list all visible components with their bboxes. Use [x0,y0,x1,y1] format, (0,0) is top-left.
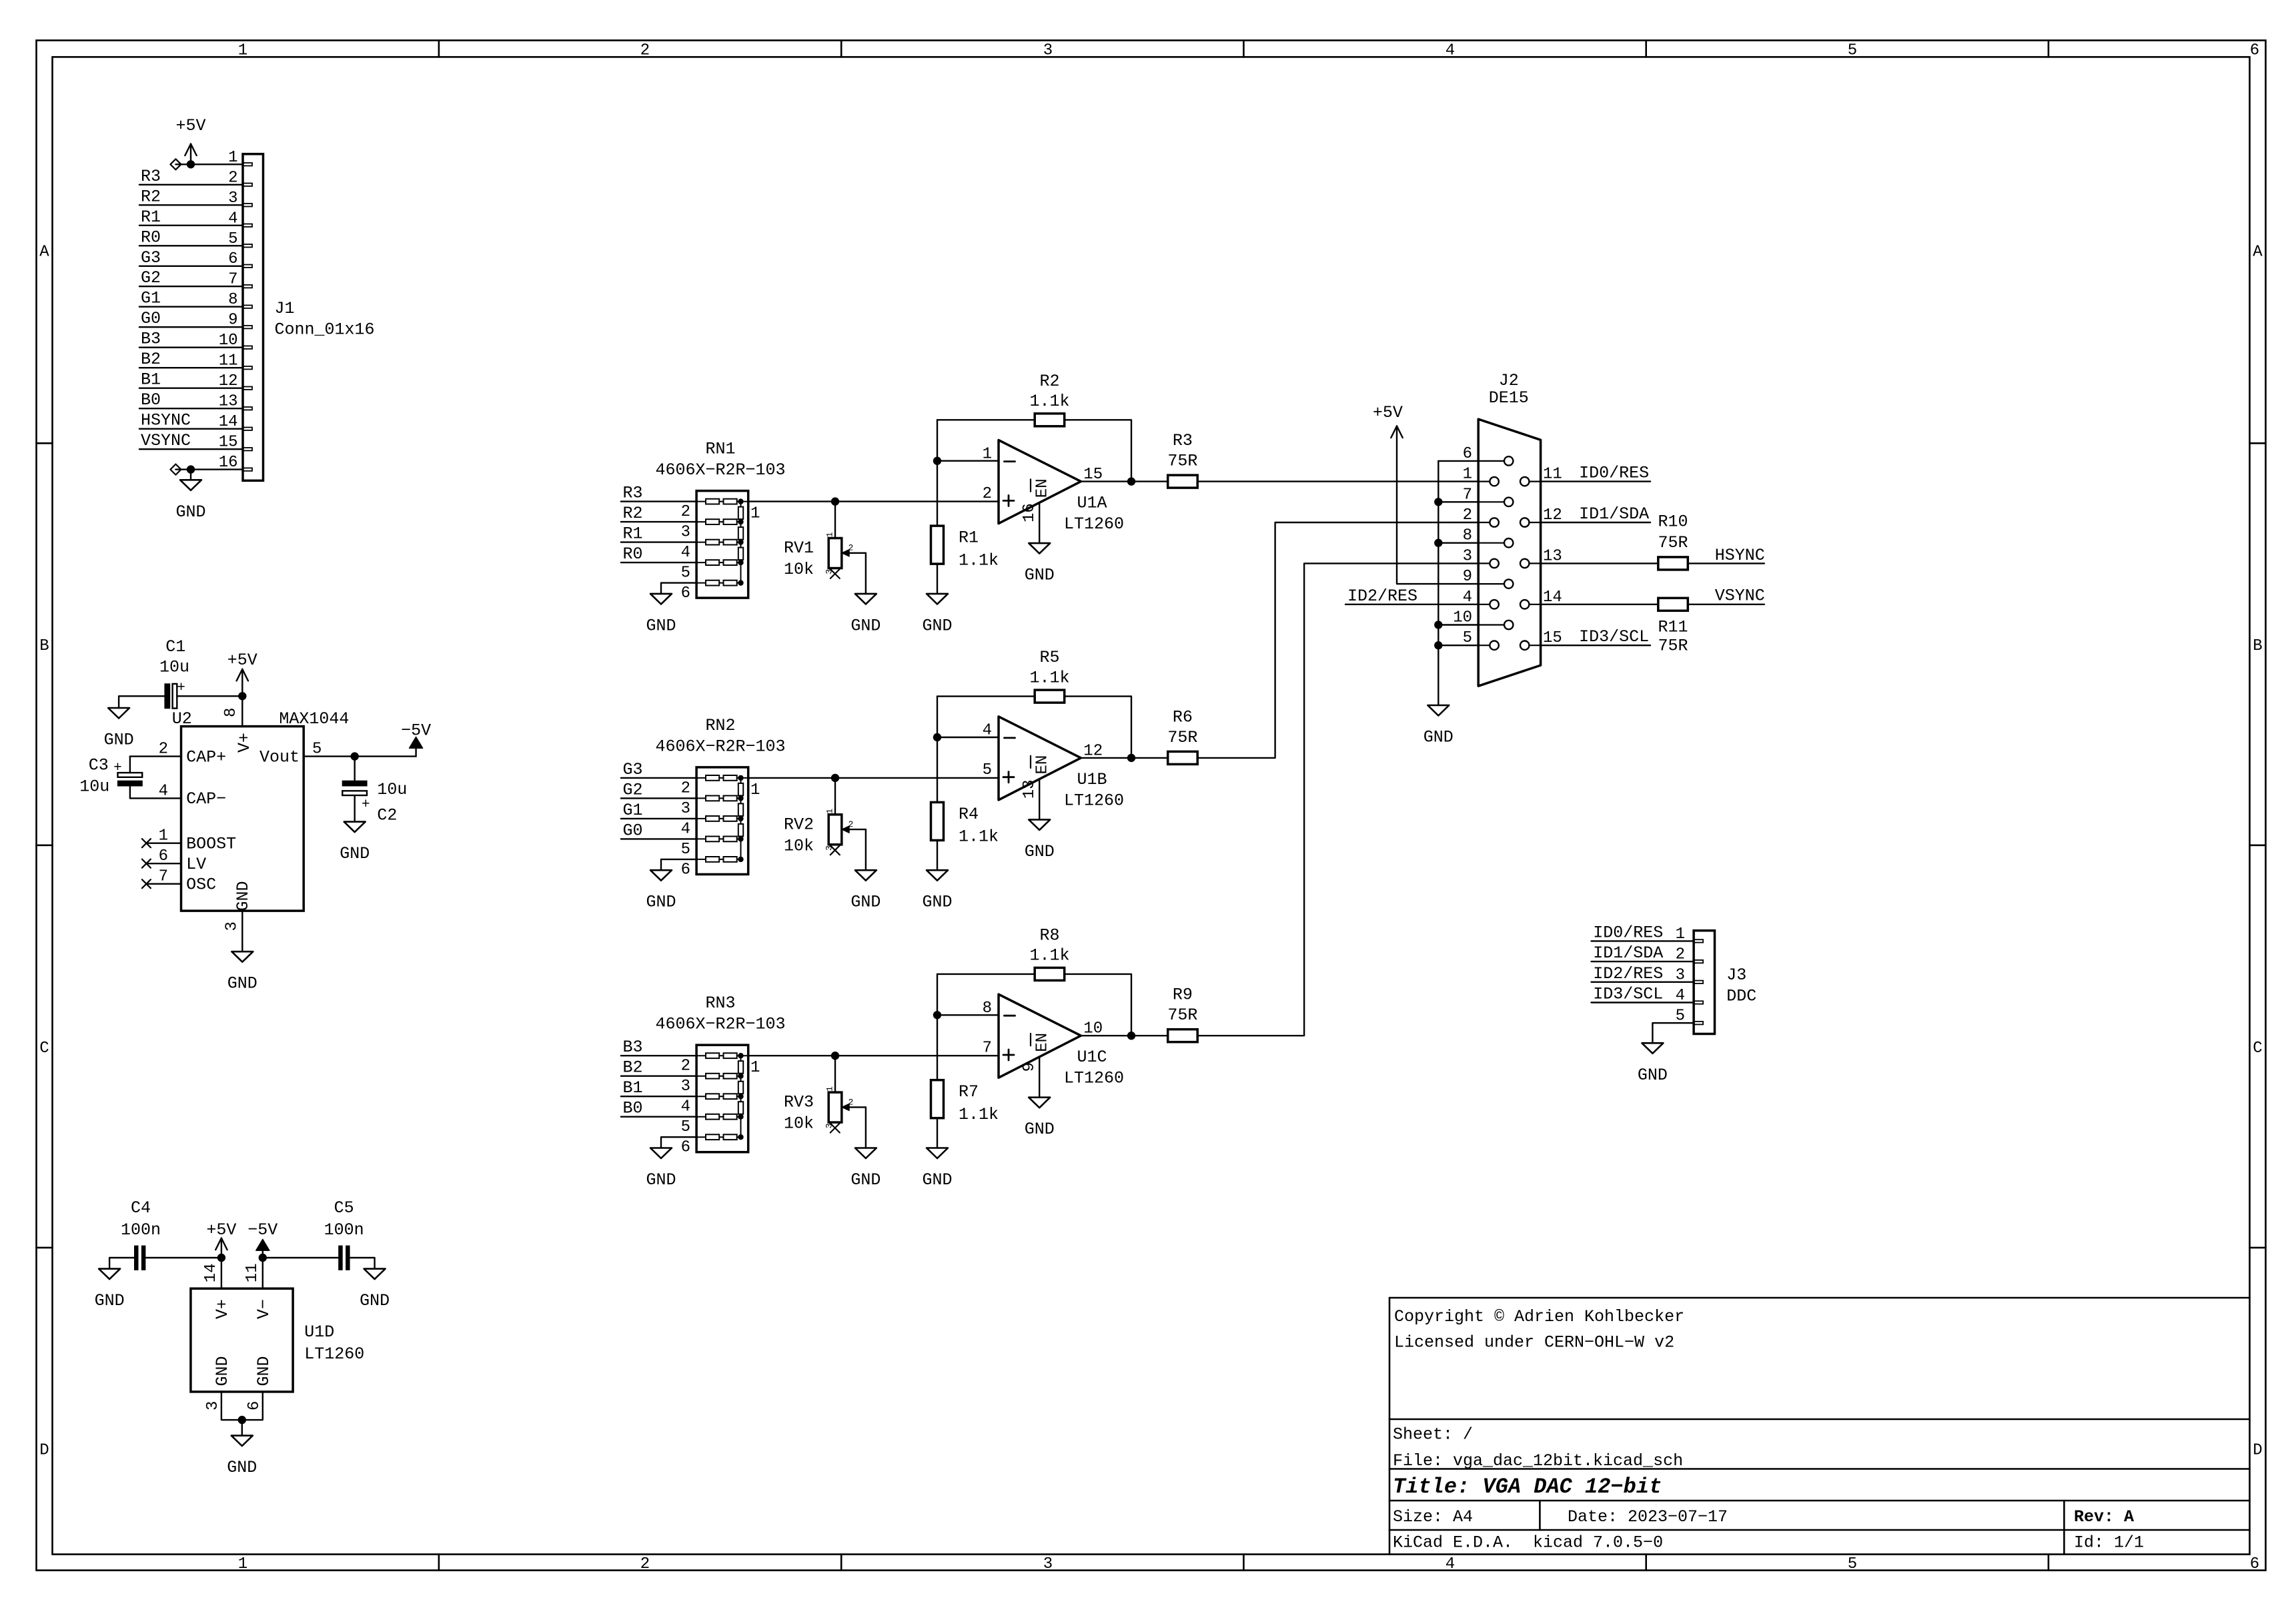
svg-text:1: 1 [750,505,760,523]
svg-text:VSYNC: VSYNC [1715,586,1765,605]
svg-text:GND: GND [850,616,881,635]
svg-text:B3: B3 [623,1038,643,1057]
U2 pin names [186,733,300,911]
R8 reference and value [1029,926,1069,965]
svg-text:13: 13 [1021,779,1039,799]
junction at U1B output [1127,754,1135,762]
ground at J2 [1427,705,1449,716]
ground at R7 [927,1148,948,1159]
resistor R11 75R [1658,598,1688,611]
vertical wire to R4 [937,697,938,803]
J2 pin holes [1490,456,1529,650]
svg-text:CAP−: CAP− [186,789,226,809]
RN1 reference and value [655,440,785,480]
svg-text:2: 2 [848,819,854,829]
svg-text:G0: G0 [141,309,161,328]
U1A reference and value [1064,494,1124,534]
title block copyright text [1394,1307,1684,1352]
svg-text:5: 5 [983,761,992,779]
svg-text:ID2/RES: ID2/RES [1347,586,1417,606]
svg-text:11: 11 [243,1263,261,1282]
input wires and labels R3/R2/R1/R0 [621,484,696,564]
wire green channel R6 resistor to J2 pin 2 [1197,522,1478,758]
svg-text:5: 5 [1848,42,1857,60]
svg-text:75R: 75R [1167,1006,1197,1025]
wire U1B EN pin to ground [1039,779,1040,820]
svg-text:U2: U2 [172,709,192,729]
wire RN1 output to op-amp + input [748,500,999,502]
RN2 reference and value [655,716,785,757]
svg-text:J2: J2 [1499,371,1519,390]
wire into U1D pin 11 [262,1258,263,1288]
J3 pin stubs [1694,939,1703,1024]
svg-text:5: 5 [681,564,690,582]
svg-text:R2: R2 [1039,372,1059,391]
U1D pin numbers [202,1263,263,1411]
power -5V at U1D [247,1220,277,1258]
svg-text:U1B: U1B [1077,770,1107,789]
RN3 pin numbers [681,1058,760,1157]
svg-text:6: 6 [681,584,690,603]
svg-text:10k: 10k [784,1114,814,1134]
U1B EN pin label [1031,755,1052,775]
J3 pin numbers [1676,925,1685,1026]
svg-text:R3: R3 [141,167,161,186]
svg-text:B2: B2 [141,350,161,369]
svg-text:C: C [2253,1040,2262,1058]
ground at RV2 [855,870,877,881]
title block size/date/rev [1393,1507,2134,1527]
ground at R1 [927,594,948,605]
ground at U1C EN [1029,1098,1050,1108]
wire J2 pin 15 ID3/SCL [1541,627,1650,647]
svg-text:RN2: RN2 [705,716,735,735]
svg-text:B0: B0 [623,1099,643,1118]
feedback wire to R5 [937,695,1035,697]
svg-text:75R: 75R [1167,452,1197,471]
wire J2 pin 13 to R10 [1541,562,1658,564]
wire red channel R3 resistor to J2 pin 1 [1197,480,1478,482]
svg-text:R6: R6 [1173,707,1193,727]
no-connect at RV2 pin 3 [830,845,840,855]
svg-text:U1D: U1D [304,1322,334,1342]
wire RN3 output to op-amp + input [748,1055,999,1056]
junction at U1A output [1127,477,1135,485]
svg-text:EN: EN [1034,755,1052,775]
U1D reference and value [304,1322,364,1364]
wire C4 to GND corner [109,1258,135,1269]
label ID2/RES wire to J2 pin 4 [1345,586,1478,606]
svg-text:5: 5 [681,1118,690,1136]
svg-text:3: 3 [204,1401,222,1411]
J1 pin numbers [219,149,238,472]
svg-text:C3: C3 [89,756,109,775]
R2 reference and value [1029,372,1069,411]
wire U1B inverting input [937,737,999,738]
resistor network RN1 4606X-R2R-103 body [696,491,748,598]
svg-text:+5V: +5V [206,1220,236,1240]
svg-text:7: 7 [983,1039,992,1057]
IC U2 MAX1044 body [181,727,304,911]
svg-text:1.1k: 1.1k [959,1105,999,1124]
svg-text:GND: GND [1025,566,1055,585]
R11 reference and value [1658,618,1688,656]
frame column ticks [439,41,2049,1571]
J2 right pin numbers [1543,466,1562,648]
svg-text:75R: 75R [1658,533,1688,552]
wire U1A EN pin to ground [1039,503,1040,544]
wire V+ into U2 pin 8 [241,696,243,726]
svg-text:GND: GND [340,844,370,863]
RV3 pin numbers [824,1086,853,1128]
ground at U2 pin 3 [231,951,253,962]
capacitor C1 10u [159,637,189,709]
svg-text:5: 5 [1848,1555,1857,1573]
wire Vout to -5V [355,755,416,757]
svg-text:C5: C5 [334,1198,354,1218]
junction at U1A inverting input [933,457,941,465]
svg-text:GND: GND [850,893,881,912]
svg-text:R2: R2 [623,504,643,523]
svg-text:GND: GND [646,1170,676,1190]
U2 pin numbers [159,708,322,931]
RN2 internal R2R ladder [696,775,748,862]
no-connect at RV1 pin 3 [830,569,840,578]
svg-text:3: 3 [1043,1555,1053,1573]
RV1 pin numbers [824,532,853,574]
capacitor C2 10u [342,757,407,825]
wire U1C EN pin to ground [1039,1057,1040,1098]
junction at Vout [351,752,359,760]
svg-text:RV1: RV1 [784,538,814,558]
R1 reference and value [959,528,999,570]
svg-text:GND: GND [646,893,676,912]
svg-text:3: 3 [681,800,690,818]
wires ground bus to pins 7,8,10,5 [1438,502,1478,645]
svg-text:R10: R10 [1658,512,1688,532]
wire J3 pin 5 to ground [1652,1023,1694,1043]
svg-text:G3: G3 [141,248,161,268]
junction at U1B inverting input [933,733,941,741]
ground at U1B EN [1029,819,1050,830]
svg-text:ID3/SCL: ID3/SCL [1593,985,1663,1004]
svg-text:6: 6 [2250,1555,2259,1573]
ground at C4 [99,1269,120,1280]
svg-text:R0: R0 [141,228,161,247]
ground at RN1 [650,594,672,605]
RV2 reference and value [784,815,814,855]
svg-text:−5V: −5V [247,1220,277,1240]
svg-text:Vout: Vout [259,747,300,767]
svg-text:Id: 1/1: Id: 1/1 [2074,1533,2144,1552]
wire U1C inverting input [937,1014,999,1016]
svg-text:B1: B1 [623,1078,643,1098]
svg-text:R1: R1 [141,208,161,227]
svg-text:2: 2 [848,1097,854,1107]
svg-text:R2: R2 [141,187,161,206]
svg-text:V+: V+ [213,1299,232,1319]
wire U1A inverting input [937,460,999,462]
svg-text:G1: G1 [141,289,161,308]
ground at C2 [344,822,366,833]
U1B pin numbers [983,722,1103,799]
J2 reference and value [1489,371,1529,408]
input wires and labels B3/B2/B1/B0 [621,1038,696,1118]
wire C4 to +5V junction [145,1257,221,1258]
svg-text:ID1/SDA: ID1/SDA [1593,943,1663,963]
dangling end marker at +5V wire [170,159,181,169]
svg-text:1: 1 [238,42,247,60]
capacitor C3 10u [79,756,142,799]
svg-text:G0: G0 [623,821,643,840]
resistor network RN3 4606X-R2R-103 body [696,1045,748,1152]
wire U2 CAP- pin 4 [130,797,181,799]
RV1 reference and value [784,538,814,579]
svg-text:B2: B2 [623,1058,643,1078]
svg-text:GND: GND [254,1356,273,1386]
resistor R6 75R [1168,751,1198,764]
wire RN1 pin 6 to ground [661,583,696,594]
wire +5V to J1 pin 1 [175,163,243,165]
ground at RV3 [855,1148,877,1159]
svg-text:3: 3 [681,524,690,542]
junction at RV3 tap [831,1052,839,1060]
svg-text:10u: 10u [377,780,407,799]
svg-text:−5V: −5V [401,721,431,741]
svg-text:1: 1 [750,781,760,799]
wire U1C output [1081,1035,1167,1036]
wire down to RV1 [834,502,836,538]
svg-text:4: 4 [1446,42,1455,60]
RV3 reference and value [784,1093,814,1134]
svg-text:GND: GND [95,1291,125,1310]
capacitor C4 100n [121,1198,161,1270]
svg-text:LT1260: LT1260 [304,1344,364,1364]
svg-text:GND: GND [227,1458,257,1477]
ground at C5 [364,1269,386,1280]
svg-text:R7: R7 [959,1082,979,1102]
wire RN3 pin 6 to ground [661,1137,696,1148]
svg-text:B0: B0 [141,390,161,410]
J2 internal pin stubs [1478,461,1540,645]
svg-text:R4: R4 [959,805,979,824]
RN1 pin numbers [681,503,760,603]
potentiometer RV3 10k [828,1092,866,1122]
wire down to RV2 [834,778,836,815]
junction at J1 pin 16 [187,465,195,473]
svg-text:A: A [2253,243,2263,261]
svg-text:LT1260: LT1260 [1064,514,1124,534]
svg-text:ID1/SDA: ID1/SDA [1579,504,1649,524]
svg-text:GND: GND [360,1291,390,1310]
svg-text:6: 6 [2250,42,2259,60]
wire J2 pin 14 to R11 [1541,604,1658,605]
svg-text:Rev: A: Rev: A [2074,1507,2134,1527]
title block sheet/file [1393,1425,1683,1471]
svg-text:DE15: DE15 [1489,388,1529,408]
wire GND to J1 pin 16 [175,468,243,470]
RV2 pin numbers [824,809,853,851]
svg-text:V+: V+ [235,733,254,753]
power +5V at U1D [206,1220,236,1258]
svg-text:GND: GND [922,616,952,635]
ground at J1 pin 16 [175,470,205,522]
wire R11 to VSYNC label [1688,586,1765,605]
svg-text:R3: R3 [1173,431,1193,450]
svg-text:Licensed under CERN−OHL−W v2: Licensed under CERN−OHL−W v2 [1394,1333,1674,1352]
ground at RV1 [855,594,877,605]
svg-text:GND: GND [175,502,205,522]
svg-text:BOOST: BOOST [186,835,236,854]
svg-text:1: 1 [238,1555,247,1573]
svg-text:R9: R9 [1173,985,1193,1005]
resistor R1 1.1k [931,526,944,564]
svg-text:C2: C2 [377,806,397,825]
resistor R7 1.1k [931,1080,944,1118]
resistor R5 1.1k (feedback) [1035,690,1065,703]
svg-text:GND: GND [104,731,134,750]
svg-text:MAX1044: MAX1044 [279,709,349,729]
U2 LV pin with no-connect [142,859,181,868]
junction at U1D ground [238,1416,246,1424]
ground at U1A EN [1029,543,1050,554]
svg-text:GND: GND [922,893,952,912]
wire U1B output [1081,757,1167,759]
svg-text:HSYNC: HSYNC [1715,546,1765,565]
svg-text:16: 16 [1021,503,1039,522]
connector J2 DE15 body [1478,419,1540,686]
U1A pin numbers [983,445,1103,522]
wire U1A output [1081,480,1167,482]
svg-text:3: 3 [223,921,241,931]
resistor R10 75R [1658,557,1688,570]
svg-text:G2: G2 [623,780,643,799]
svg-text:GND: GND [233,881,253,911]
svg-text:C1: C1 [165,637,185,657]
wire C1 to +5V junction [177,695,242,697]
op-amp U1C LT1260 [999,994,1081,1078]
wire into U1D pin 14 [221,1258,222,1288]
R5 reference and value [1029,648,1069,687]
power +5V at J1 pin 1 [175,116,205,164]
wire U1D to C5 [263,1257,339,1258]
junction at U1C inverting input [933,1011,941,1019]
svg-text:GND: GND [213,1356,232,1386]
svg-text:LT1260: LT1260 [1064,1069,1124,1088]
svg-text:RV3: RV3 [784,1093,814,1112]
svg-text:10k: 10k [784,560,814,579]
feedback wire to R8 [937,973,1035,975]
resistor network RN2 4606X-R2R-103 body [696,767,748,875]
svg-text:+: + [113,761,122,776]
wire RV2 wiper to ground [865,829,867,870]
capacitor C5 100n [324,1198,364,1270]
wire U2 CAP+ pin 2 [130,755,181,757]
svg-text:2: 2 [681,503,690,521]
svg-text:GND: GND [922,1170,952,1190]
RN3 reference and value [655,993,785,1034]
svg-text:R1: R1 [959,528,979,548]
RN3 internal R2R ladder [696,1053,748,1140]
dangling end marker at GND wire [170,464,181,475]
svg-text:ID0/RES: ID0/RES [1593,923,1663,942]
svg-text:4: 4 [681,1098,690,1116]
svg-text:Size: A4: Size: A4 [1393,1507,1473,1527]
J2 left pin numbers [1453,445,1472,647]
ground at U1D [227,1420,257,1477]
svg-text:R1: R1 [623,524,643,544]
labelled wires R3..VSYNC to J1 [139,167,243,450]
resistor R9 75R [1168,1030,1198,1042]
svg-text:J3: J3 [1726,965,1746,985]
svg-text:D: D [2253,1442,2262,1460]
svg-text:R5: R5 [1039,648,1059,667]
title block outline [1389,1298,2250,1555]
wire RN2 pin 6 to ground [661,859,696,870]
svg-text:2: 2 [640,1555,650,1573]
svg-text:10u: 10u [79,777,109,797]
svg-text:B: B [2253,637,2262,655]
svg-text:3: 3 [681,1078,690,1096]
svg-text:EN: EN [1034,478,1052,498]
U2 OSC pin with no-connect [142,879,181,888]
svg-text:OSC: OSC [186,875,216,895]
svg-text:75R: 75R [1167,728,1197,747]
svg-text:DDC: DDC [1726,987,1756,1006]
input wires and labels G3/G2/G1/G0 [621,760,696,841]
wire R10 to HSYNC label [1688,546,1765,565]
svg-text:R0: R0 [623,544,643,564]
svg-text:ID0/RES: ID0/RES [1579,464,1649,483]
svg-text:EN: EN [1034,1033,1052,1052]
wire +5V to J2 pin 9 [1397,432,1478,584]
svg-text:1.1k: 1.1k [1029,392,1069,411]
junction at RV1 tap [831,497,839,505]
U2 reference and value [172,709,350,729]
svg-text:KiCad E.D.A. kicad 7.0.5−0: KiCad E.D.A. kicad 7.0.5−0 [1393,1533,1663,1552]
U1A input polarity marks [1003,462,1015,506]
svg-text:1.1k: 1.1k [959,550,999,570]
R6 reference and value [1167,707,1197,747]
svg-text:1.1k: 1.1k [959,827,999,847]
wires U1D GND pins 3 and 6 [221,1392,263,1420]
svg-text:GND: GND [1638,1066,1668,1085]
svg-text:1: 1 [750,1059,760,1077]
svg-text:B: B [39,637,49,655]
feedback wire to R2 [937,419,1035,420]
power +5V at J2 pin 9 [1373,403,1403,438]
svg-text:100n: 100n [121,1220,161,1240]
R3 reference and value [1167,431,1197,471]
connector J1 pin stubs [243,163,252,471]
wire C5 to GND corner [350,1258,375,1269]
svg-text:R8: R8 [1039,926,1059,945]
wire blue channel R9 resistor to J2 pin 3 [1197,563,1478,1036]
svg-text:2: 2 [640,42,650,60]
wire R1 to ground [937,564,938,594]
ground at C1 [108,708,129,719]
svg-text:+: + [177,681,185,696]
junction at J1 pin 1 [187,160,195,168]
ground at RN3 [650,1148,672,1159]
power -5V at U2 Vout [401,721,431,757]
resistor R8 1.1k (feedback) [1035,967,1065,980]
svg-text:Conn_01x16: Conn_01x16 [275,320,375,340]
svg-text:4606X−R2R−103: 4606X−R2R−103 [655,737,785,756]
svg-text:B1: B1 [141,370,161,390]
svg-text:RV2: RV2 [784,815,814,834]
wire R4 to ground [937,840,938,870]
